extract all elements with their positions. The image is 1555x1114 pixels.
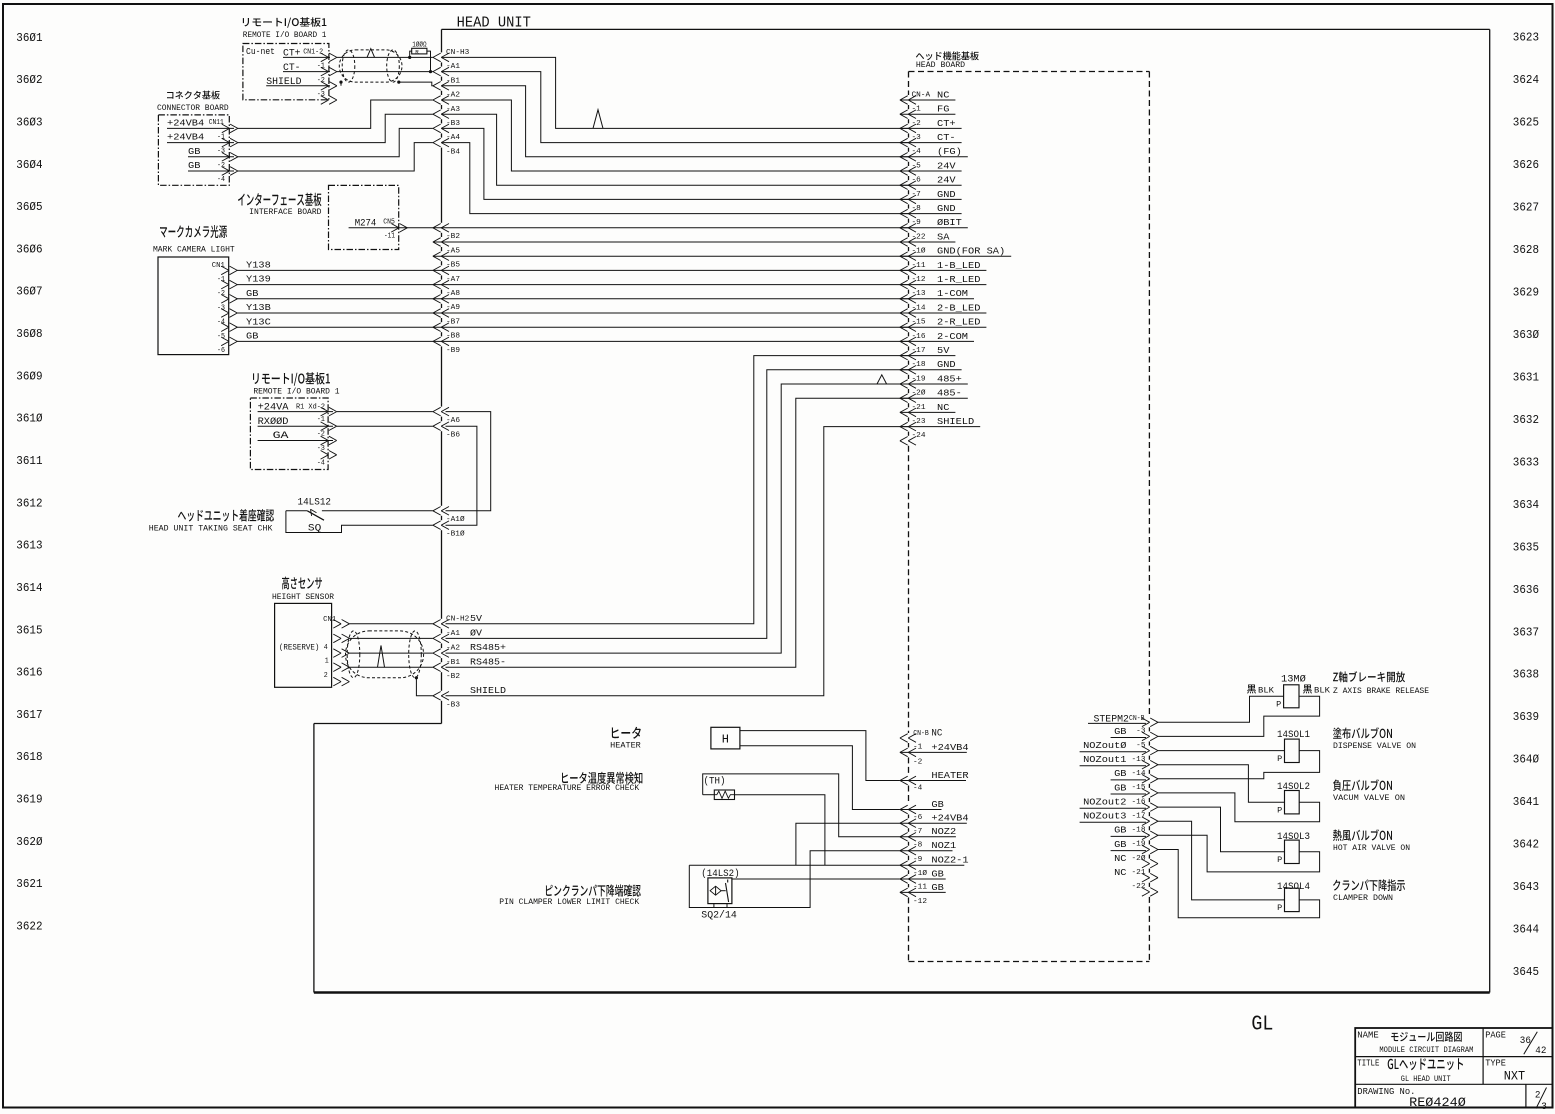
svg-text:-19: -19: [912, 375, 926, 383]
connector CN-B(left) pin -2: [913, 759, 922, 767]
svg-text:BLK: BLK: [1258, 687, 1274, 696]
wire CN-H3 row 114 to CN-A row 6: [442, 114, 909, 185]
svg-text:Y13C: Y13C: [246, 316, 271, 327]
connector head-unit pin -A9 row: [433, 295, 460, 313]
connector CN-B(left) pin -10 (GB): [900, 868, 946, 883]
svg-text:NOZ2-1: NOZ2-1: [931, 855, 969, 866]
svg-text:MODULE CIRCUIT DIAGRAM: MODULE CIRCUIT DIAGRAM: [1379, 1045, 1473, 1055]
connector CN-B(right) pin -5 (NOZout0): [1080, 740, 1158, 755]
connector CN-B(right) pin -15 (GB): [1111, 782, 1158, 797]
svg-text:36Ø3: 36Ø3: [16, 115, 42, 129]
svg-text:CONNECTOR BOARD: CONNECTOR BOARD: [157, 104, 229, 113]
connector CN-A pin -14 (2-B_LED): [900, 302, 987, 317]
svg-text:3621: 3621: [16, 877, 42, 891]
svg-text:36Ø8: 36Ø8: [16, 327, 42, 341]
connector CN-B(right) pin -14 (GB): [1111, 768, 1158, 783]
svg-text:-5: -5: [217, 333, 225, 341]
connector head-unit pin -B7 row: [433, 309, 460, 327]
connector head-unit pin -A2 row: [433, 92, 460, 105]
mark-camera pin CN1: [212, 262, 238, 275]
svg-text:HEATER TEMPERATURE ERROR CHECK: HEATER TEMPERATURE ERROR CHECK: [495, 784, 640, 793]
connector CN-B(right) pin -17 (NOZout3): [1080, 811, 1158, 826]
svg-text:Y138: Y138: [246, 260, 271, 271]
svg-text:3641: 3641: [1513, 795, 1539, 809]
svg-text:-15: -15: [1132, 784, 1146, 792]
wire CN-H3 row 72 to CN-A row 3: [442, 72, 909, 143]
connector CN-A pin -12 (1-R_LED): [900, 274, 987, 289]
connector head-unit pin -B5 row: [433, 252, 460, 270]
svg-text:-5: -5: [1136, 742, 1145, 750]
connector head-unit pin -A1 row: [433, 630, 460, 643]
svg-text:+24VB4: +24VB4: [167, 132, 205, 143]
svg-text:3618: 3618: [16, 750, 42, 764]
svg-text:36Ø4: 36Ø4: [16, 158, 42, 172]
wire CN-H3 row 128 to CN-A row 7: [442, 128, 909, 199]
svg-text:ØV: ØV: [470, 628, 482, 639]
svg-text:-1: -1: [217, 276, 225, 284]
connector CN-B(right) pin -13 (NOZout1): [1080, 754, 1158, 769]
svg-text:5V: 5V: [937, 345, 950, 356]
wire 14SOL3 return to GB -18: [1158, 835, 1320, 872]
svg-text:-4: -4: [217, 319, 225, 327]
svg-text:3627: 3627: [1513, 201, 1539, 215]
svg-text:-A2: -A2: [446, 645, 460, 653]
svg-text:-17: -17: [1132, 812, 1146, 820]
connector height-sensor chevron row 638: [333, 634, 349, 643]
svg-text:-B7: -B7: [446, 318, 460, 326]
svg-text:-23: -23: [912, 418, 926, 426]
svg-text:14SOL3: 14SOL3: [1277, 832, 1310, 843]
connector height-sensor chevron row 653: [333, 649, 349, 658]
svg-text:1-COM: 1-COM: [937, 288, 968, 299]
svg-text:3629: 3629: [1513, 286, 1539, 300]
svg-text:36Ø7: 36Ø7: [16, 285, 42, 299]
svg-text:CN1: CN1: [212, 262, 225, 270]
svg-text:-2: -2: [217, 162, 225, 170]
solenoid 14SOL2 (vacuum valve on): [1277, 779, 1405, 815]
svg-text:GB: GB: [1114, 825, 1127, 836]
svg-text:+24VB4: +24VB4: [931, 813, 969, 824]
wire CN-H2 row 696 to CN-A row 23: [446, 427, 909, 696]
svg-text:3615: 3615: [16, 623, 42, 637]
svg-text:CT-: CT-: [283, 63, 301, 74]
svg-text:-2: -2: [913, 759, 922, 767]
connector remote-board-lower chevron row 455: [321, 451, 337, 460]
svg-text:H: H: [722, 733, 729, 747]
node RX00D / pin -1: [258, 416, 333, 428]
svg-text:NC: NC: [937, 402, 950, 413]
svg-text:36Ø6: 36Ø6: [16, 242, 42, 256]
connector CN-A pin -9 (0BIT): [900, 217, 968, 232]
wire cable shield to CN-H2 -B3: [415, 676, 433, 696]
svg-text:3614: 3614: [16, 581, 42, 595]
remote I/O board 1 (top) enclosure: [243, 17, 329, 100]
svg-text:-3: -3: [217, 304, 225, 312]
connector CN-B(left) pin -1 (+24VB4): [900, 742, 969, 757]
svg-text:3: 3: [1541, 1102, 1547, 1113]
node SHIELD label and pin -2: [266, 77, 330, 88]
mark-camera pin -5: [217, 333, 237, 346]
connector height-sensor chevron row 667: [333, 663, 349, 672]
svg-text:TITLE: TITLE: [1357, 1059, 1379, 1069]
switch SQ2/14 (14LS2) pin clamper lower limit check: [499, 868, 739, 922]
solenoid 14SOL3 (hot air valve on): [1277, 829, 1410, 865]
svg-text:HOT AIR VALVE ON: HOT AIR VALVE ON: [1333, 844, 1410, 853]
node CT- label and pin -1: [283, 63, 330, 74]
svg-text:-24: -24: [912, 432, 926, 440]
connector head-unit pin -B1 row: [433, 77, 460, 90]
svg-text:3633: 3633: [1513, 455, 1539, 469]
connector CN-A pin -1 (FG): [900, 104, 956, 119]
wire CN-H3 row 100 to CN-A row 5: [442, 100, 909, 171]
wire +24VA to -A6: [337, 411, 433, 413]
svg-text:GND: GND: [937, 189, 956, 200]
svg-text:-B4: -B4: [446, 148, 460, 156]
connector-board pin CN11 (+24VB4) wire to head unit: [167, 100, 433, 133]
svg-text:NAME: NAME: [1357, 1030, 1378, 1040]
mark-camera pin -3: [217, 304, 237, 317]
connector CN-B(left) pin -8 (NOZ1): [900, 840, 957, 855]
connector height-sensor chevron row 624: [333, 620, 349, 629]
connector CN-A pin -22 (SA): [900, 231, 956, 246]
svg-text:-7: -7: [912, 191, 921, 199]
svg-text:CN-B: CN-B: [1129, 715, 1145, 723]
svg-text:3643: 3643: [1513, 880, 1539, 894]
connector head-unit pin CN-H3 row: [433, 49, 469, 62]
wire Y13C mark-camera to CN-A: [237, 326, 909, 328]
svg-text:361Ø: 361Ø: [16, 412, 42, 426]
svg-text:-3: -3: [912, 134, 921, 142]
mark camera light enclosure: [153, 225, 235, 355]
connector CN-A pin -10 (GND(FOR SA)): [900, 246, 1011, 261]
head board (ヘッド機能基板) enclosure: [909, 51, 1150, 961]
svg-text:-A9: -A9: [446, 304, 460, 312]
svg-text:CN-A: CN-A: [912, 91, 931, 99]
svg-text:2: 2: [1535, 1090, 1541, 1101]
svg-text:3613: 3613: [16, 539, 42, 553]
svg-text:CN-B: CN-B: [913, 730, 929, 738]
connector remote-board-lower chevron row 426: [321, 422, 337, 431]
svg-text:-19: -19: [1132, 841, 1146, 849]
svg-text:2-B_LED: 2-B_LED: [937, 302, 981, 313]
wire CN-H3 row 57 to CN-A row 2: [442, 57, 909, 128]
svg-text:GB: GB: [931, 868, 944, 879]
svg-text:3625: 3625: [1513, 116, 1539, 130]
solenoid 13M0 (Z axis brake release): [1247, 671, 1429, 709]
wire CN-H2 row 667 to CN-A row 21: [446, 398, 909, 667]
svg-text:REMOTE I/O BOARD 1: REMOTE I/O BOARD 1: [243, 31, 327, 40]
connector head-unit pin -B9 row: [433, 337, 460, 355]
svg-text:-8: -8: [913, 842, 922, 850]
connector CN-A pin -18 (GND): [900, 359, 962, 374]
connector remote-board-lower chevron row 440: [321, 436, 337, 445]
svg-text:3612: 3612: [16, 496, 42, 510]
svg-text:NOZoutØ: NOZoutØ: [1083, 740, 1127, 751]
head unit enclosure box: [314, 15, 1490, 993]
svg-text:GND: GND: [937, 359, 956, 370]
interface board pin M274 / CN5 -11: [355, 218, 408, 240]
svg-text:-12: -12: [912, 276, 926, 284]
svg-text:5V: 5V: [470, 613, 482, 624]
svg-text:24V: 24V: [937, 175, 956, 186]
svg-text:HEAD UNIT TAKING SEAT CHK: HEAD UNIT TAKING SEAT CHK: [149, 525, 273, 534]
node CT+ label and pin CN1-2: [283, 48, 330, 59]
connector CN-A pin CN-A (NC): [900, 89, 956, 104]
svg-text:-15: -15: [912, 319, 926, 327]
svg-text:GB: GB: [1114, 839, 1127, 850]
svg-text:36Ø2: 36Ø2: [16, 73, 42, 87]
wire 13M0 return to GB -3: [1158, 696, 1320, 736]
svg-text:SHIELD: SHIELD: [937, 416, 975, 427]
switch 14LS12 (head unit taking seat chk): [149, 497, 433, 534]
svg-text:CN1-2: CN1-2: [303, 48, 323, 56]
svg-text:GL HEAD UNIT: GL HEAD UNIT: [1401, 1074, 1451, 1084]
wire thermistor to CN-B -7 NOZ2: [703, 774, 900, 837]
svg-text:NC: NC: [1114, 867, 1127, 878]
svg-text:3623: 3623: [1513, 31, 1539, 45]
svg-text:3639: 3639: [1513, 710, 1539, 724]
svg-text:3622: 3622: [16, 920, 42, 934]
svg-text:HEIGHT SENSOR: HEIGHT SENSOR: [272, 593, 334, 602]
wire height-sensor row 653: [349, 652, 433, 654]
svg-text:Y139: Y139: [246, 274, 271, 285]
svg-text:SA: SA: [937, 231, 950, 242]
svg-text:-13: -13: [1132, 756, 1146, 764]
svg-text:-B6: -B6: [446, 432, 460, 440]
connector CN-A pin -19 (485+): [900, 373, 968, 388]
svg-text:3634: 3634: [1513, 498, 1539, 512]
svg-text:-A3: -A3: [446, 106, 460, 114]
wire M274/CN5 to CN-A 0BIT: [349, 227, 909, 229]
svg-text:-A7: -A7: [446, 276, 460, 284]
connector CN-B(right) pin -18 (GB): [1111, 825, 1158, 840]
wire CT+: [337, 56, 433, 58]
svg-text:-18: -18: [1132, 827, 1146, 835]
svg-text:-22: -22: [912, 233, 926, 241]
svg-text:TYPE: TYPE: [1485, 1059, 1506, 1069]
connector CN-A pin -13 (1-COM): [900, 288, 974, 303]
resistor R 100ohm termination: [408, 41, 432, 74]
svg-text:-1Ø: -1Ø: [912, 247, 927, 256]
svg-text:GB: GB: [246, 288, 259, 299]
svg-text:36Ø1: 36Ø1: [16, 31, 42, 45]
twisted pair cable symbol (height sensor RS485): [346, 631, 424, 678]
connector CN-A pin -4 ((FG)): [900, 146, 968, 161]
svg-text:2-R_LED: 2-R_LED: [937, 317, 981, 328]
svg-text:GL: GL: [1251, 1014, 1273, 1037]
svg-text:R: R: [415, 48, 419, 55]
wire SA row: [433, 241, 909, 243]
mark-camera pin -4: [217, 319, 237, 332]
connector remote-board-1 chevron row 57: [321, 53, 337, 62]
svg-text:ØBIT: ØBIT: [937, 217, 962, 228]
wire CN-H3 row 143 to CN-A row 8: [442, 143, 909, 214]
svg-text:3638: 3638: [1513, 668, 1539, 682]
svg-text:1-R_LED: 1-R_LED: [937, 274, 981, 285]
svg-text:-18: -18: [912, 361, 926, 369]
svg-text:CN-H3: CN-H3: [446, 49, 469, 57]
svg-text:-7: -7: [913, 828, 922, 836]
svg-text:3635: 3635: [1513, 540, 1539, 554]
wire NOZout0 to 14SOL1: [1158, 750, 1285, 752]
svg-text:NC: NC: [1114, 853, 1127, 864]
connector head-unit pin -B8 row: [433, 323, 460, 341]
svg-text:GND: GND: [937, 203, 956, 214]
connector CN-B(left) pin -9 (NOZ2-1): [900, 855, 969, 870]
svg-text:-13: -13: [912, 290, 926, 298]
svg-text:M274: M274: [355, 218, 377, 229]
mark-camera pin -2: [217, 290, 237, 303]
svg-text:-B1: -B1: [446, 659, 460, 667]
svg-text:3626: 3626: [1513, 158, 1539, 172]
connector CN-B(left) pin -4 (HEATER): [900, 770, 969, 793]
svg-text:SHIELD: SHIELD: [266, 77, 301, 88]
svg-text:GB: GB: [246, 331, 259, 342]
svg-text:-A8: -A8: [446, 290, 460, 298]
svg-text:NOZ1: NOZ1: [931, 840, 956, 851]
svg-text:NOZout2: NOZout2: [1083, 797, 1126, 808]
svg-text:-4: -4: [913, 785, 922, 793]
svg-text:NOZout3: NOZout3: [1083, 811, 1126, 822]
svg-text:-11: -11: [384, 233, 395, 241]
svg-text:(RESERVE): (RESERVE): [279, 643, 320, 653]
connector CN-A pin -11 (1-B_LED): [900, 260, 987, 275]
svg-text:1-B_LED: 1-B_LED: [937, 260, 981, 271]
solenoid 14SOL4 (clamper down): [1277, 879, 1405, 913]
svg-text:-11: -11: [913, 883, 927, 891]
connector head-unit pin -A3 row: [433, 106, 460, 119]
svg-text:Z AXIS BRAKE RELEASE: Z AXIS BRAKE RELEASE: [1333, 687, 1429, 696]
svg-text:-1: -1: [913, 743, 922, 751]
twist symbol on CT+ wire: [593, 110, 603, 129]
svg-text:HEAD BOARD: HEAD BOARD: [916, 61, 965, 70]
wire CT-: [337, 71, 433, 73]
svg-text:GB: GB: [188, 160, 201, 171]
connector CN-B(left) pin -11 (GB): [900, 882, 946, 897]
connector CN-A pin -17 (5V): [900, 345, 956, 360]
wire GND(FOR SA) row: [433, 255, 909, 257]
svg-text:-11: -11: [912, 262, 926, 270]
svg-text:-2Ø: -2Ø: [1132, 854, 1147, 863]
heater H: [610, 727, 740, 751]
svg-text:CN5: CN5: [383, 219, 395, 227]
interface board enclosure: [238, 185, 399, 249]
connector CN-A pin -5 (24V): [900, 160, 962, 175]
wire thermistor to NOZ2-1 node: [735, 795, 825, 866]
svg-text:-1Ø: -1Ø: [913, 869, 928, 878]
connector CN-B(left) pin -6 (+24VB4): [900, 813, 969, 828]
svg-text:-B3: -B3: [446, 120, 460, 128]
svg-text:-4: -4: [912, 148, 921, 156]
svg-text:+24VB4: +24VB4: [931, 742, 969, 753]
svg-text:NOZ2: NOZ2: [931, 826, 956, 837]
svg-text:-16: -16: [912, 333, 926, 341]
wire NOZout3 to 14SOL4: [1158, 821, 1285, 900]
height sensor enclosure: [272, 577, 336, 688]
connector CN-A pin -8 (GND): [900, 203, 962, 218]
svg-text:CN-H2: CN-H2: [446, 615, 469, 623]
connector remote-board-1 chevron row 72: [321, 67, 337, 76]
svg-text:SQ2/14: SQ2/14: [701, 909, 737, 921]
connector head-unit pin -B6 row: [433, 422, 460, 440]
svg-text:-1: -1: [217, 134, 225, 142]
wire GB mark-camera to CN-A: [237, 340, 909, 342]
svg-text:-A5: -A5: [446, 247, 460, 255]
connector head-unit pin -B3 row: [446, 702, 460, 710]
connector head-unit pin -B10 row: [433, 521, 466, 539]
svg-text:CT-: CT-: [937, 132, 956, 143]
wire NOZ2-1 -9 row: [689, 864, 900, 866]
svg-text:SHIELD: SHIELD: [470, 685, 506, 696]
wire heater to CN-B -4 HEATER: [740, 731, 900, 781]
connector CN-B(right) pin CN-B (STEPM2): [1088, 715, 1158, 727]
connector CN-A pin -20 (485-): [900, 388, 968, 403]
connector board enclosure: [157, 91, 229, 186]
svg-text:-2: -2: [217, 290, 225, 298]
svg-text:(TH): (TH): [704, 776, 726, 788]
svg-text:-22: -22: [1132, 883, 1146, 891]
remote I/O board 1 (lower) enclosure: [250, 372, 339, 469]
connector CN-A pin -6 (24V): [900, 175, 962, 190]
svg-text:14SOL2: 14SOL2: [1277, 782, 1310, 793]
svg-text:STEPM2: STEPM2: [1094, 715, 1129, 726]
svg-text:GB: GB: [188, 146, 201, 157]
svg-text:2-COM: 2-COM: [937, 331, 968, 342]
connector head-unit pin -A1 row: [433, 63, 460, 76]
svg-text:3624: 3624: [1513, 73, 1539, 87]
svg-text:P: P: [1277, 805, 1282, 815]
svg-text:PIN CLAMPER LOWER LIMIT CHECK: PIN CLAMPER LOWER LIMIT CHECK: [499, 898, 639, 907]
svg-text:BLK: BLK: [1314, 687, 1330, 696]
svg-text:GND(FOR SA): GND(FOR SA): [937, 246, 1005, 257]
svg-text:1: 1: [325, 658, 329, 666]
svg-text:485+: 485+: [937, 373, 962, 384]
connector head-unit pin -A10 row: [433, 507, 466, 525]
svg-text:NC: NC: [931, 728, 942, 739]
connector CN-A pin -2 (CT+): [900, 118, 962, 133]
mark-camera pin -1: [217, 276, 237, 289]
svg-text:36Ø9: 36Ø9: [16, 369, 42, 383]
wire SHIELD to cable screen: [339, 81, 433, 86]
svg-text:CT+: CT+: [937, 118, 956, 129]
svg-text:-3: -3: [217, 148, 225, 156]
svg-text:3617: 3617: [16, 708, 42, 722]
connector CN-A pin -21 (NC): [900, 402, 956, 417]
svg-text:485-: 485-: [937, 388, 962, 399]
svg-text:-6: -6: [217, 347, 225, 355]
connector CN-B(right) pin -22: [1132, 883, 1159, 896]
svg-text:NC: NC: [937, 89, 950, 100]
svg-text:-14: -14: [1132, 770, 1146, 778]
svg-text:-A1: -A1: [446, 630, 460, 638]
connector head-unit pin -A8 row: [433, 280, 460, 298]
connector CN-B(left) pin -5 (GB): [900, 799, 944, 814]
wire STEPM2 to 13M0: [1158, 696, 1284, 722]
svg-text:-A4: -A4: [446, 134, 460, 142]
wire Y138 mark-camera to CN-A: [237, 269, 909, 271]
svg-text:-6: -6: [913, 814, 922, 822]
svg-text:-A1Ø: -A1Ø: [446, 515, 465, 524]
wire height-sensor row 667: [349, 666, 433, 668]
svg-text:3616: 3616: [16, 666, 42, 680]
wire GB mark-camera to CN-A: [237, 298, 909, 300]
svg-text:363Ø: 363Ø: [1513, 328, 1539, 342]
wire 14SOL1 return to GB -14: [1158, 751, 1320, 779]
svg-text:NOZout1: NOZout1: [1083, 754, 1127, 765]
svg-text:-B5: -B5: [446, 262, 460, 270]
svg-text:3644: 3644: [1513, 923, 1539, 937]
wire height-sensor row 624: [349, 623, 433, 625]
